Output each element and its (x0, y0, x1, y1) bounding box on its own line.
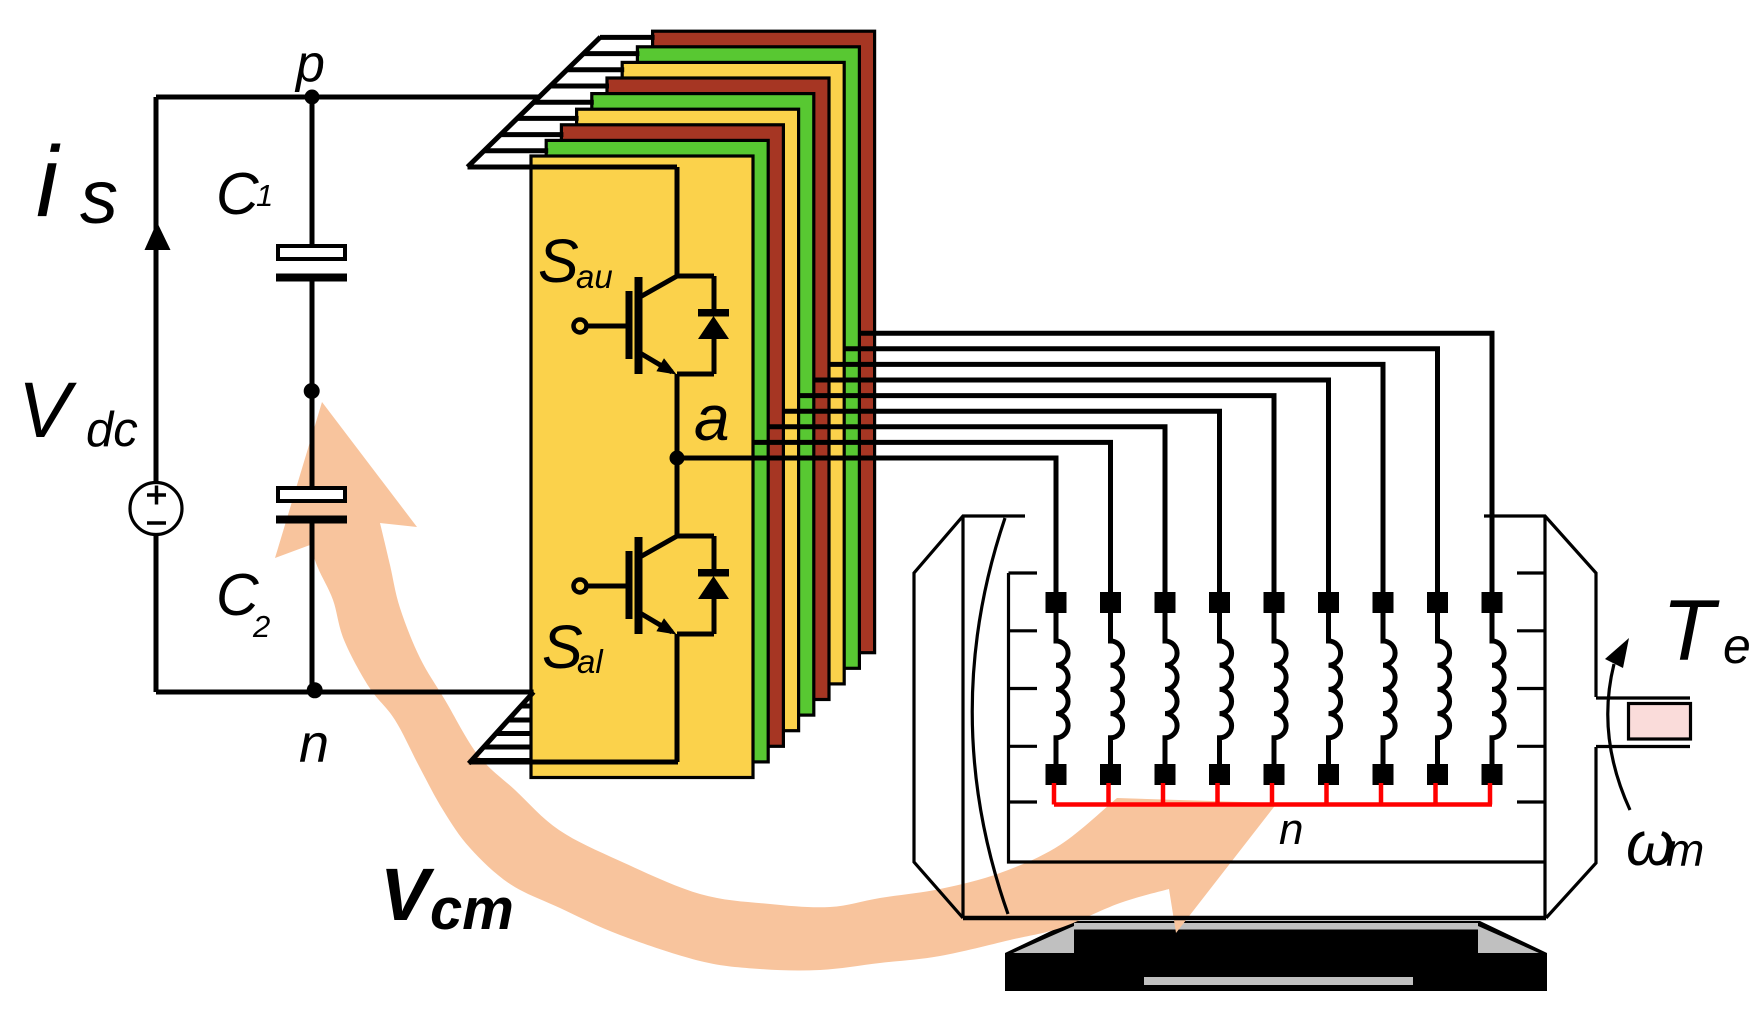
wire C1 to midpoint (310, 281, 315, 488)
neutral bus n (red star connection) (1054, 783, 1492, 805)
winding 4 (1209, 592, 1232, 785)
phase leg panel 4 (577, 109, 799, 731)
phase leg panel 5 (592, 94, 814, 716)
stator frame (1009, 516, 1546, 918)
node midpoint (304, 383, 320, 399)
svg-text:cm: cm (430, 877, 514, 942)
node p (305, 90, 320, 105)
svg-text:C: C (216, 161, 259, 227)
wire phase 1 to motor (677, 458, 1056, 593)
wire capacitor branch upper (310, 97, 315, 246)
p bus comb (top) (468, 37, 655, 167)
wire n bus into front panel (469, 760, 678, 765)
capacitor C2 (276, 488, 347, 520)
wire phase 5 to motor (799, 396, 1274, 593)
stator slot ticks (1009, 573, 1546, 802)
winding 7 (1373, 592, 1396, 785)
wire source to n rail (154, 535, 159, 693)
torque arrow Te (1605, 638, 1630, 810)
svg-text:m: m (1666, 824, 1704, 876)
svg-text:V: V (18, 365, 77, 454)
wire p bus into front panel (468, 165, 678, 170)
winding 1 (1046, 592, 1069, 785)
n bus comb (bottom) (469, 692, 534, 764)
capacitor C1 (276, 246, 347, 278)
svg-text:n: n (299, 714, 329, 774)
Vcm arrow (common-mode voltage path) (275, 402, 1277, 971)
phase leg panel 1 (531, 156, 753, 778)
winding 2 (1100, 592, 1123, 785)
svg-text:a: a (694, 382, 730, 454)
wire C2 to n rail (310, 523, 315, 692)
wire phase 2 to motor (753, 442, 1111, 593)
svg-text:au: au (576, 258, 613, 295)
is current arrow (145, 222, 171, 250)
svg-text:al: al (577, 643, 604, 680)
winding 5 (1264, 592, 1287, 785)
wire phase 3 to motor (768, 427, 1165, 593)
motor shaft (1596, 698, 1691, 747)
wire n rail (156, 690, 534, 695)
phase leg panel 6 (607, 78, 829, 700)
svg-text:p: p (294, 35, 325, 93)
svg-text:s: s (80, 155, 118, 240)
svg-text:1: 1 (256, 178, 273, 213)
IGBT Sau (upper switch) with freewheeling diode (574, 276, 730, 375)
motor base pedestal (1005, 921, 1547, 991)
svg-text:n: n (1279, 805, 1303, 854)
phase-leg rail (collector feed) (675, 167, 680, 277)
phase leg panel 3 (561, 125, 783, 747)
svg-text:T: T (1662, 583, 1720, 679)
motor housing left end cap (914, 516, 1025, 918)
phase output wires (677, 333, 1492, 593)
phase leg panel 2 (546, 140, 768, 762)
wire phase 7 to motor (829, 364, 1383, 593)
winding 3 (1155, 592, 1178, 785)
phase leg panel 7 (622, 62, 844, 684)
wire phase 6 to motor (814, 380, 1329, 593)
phase leg panel 9 (653, 31, 875, 653)
svg-text:S: S (538, 227, 579, 295)
phase leg panel 8 (637, 47, 859, 669)
wire p rail (156, 95, 540, 100)
winding 8 (1427, 592, 1450, 785)
wire source branch (154, 97, 159, 484)
wire phase 8 to motor (844, 349, 1437, 593)
IGBT Sal (lower switch) with freewheeling diode (574, 536, 730, 635)
motor housing body (963, 516, 1596, 918)
node n (307, 682, 323, 698)
svg-text:i: i (36, 126, 61, 238)
winding 9 (1482, 592, 1505, 785)
svg-text:V: V (380, 853, 435, 936)
svg-text:e: e (1723, 618, 1751, 674)
wire phase 9 to motor (859, 333, 1492, 593)
svg-text:2: 2 (252, 609, 270, 644)
wire phase 4 to motor (783, 411, 1219, 593)
wire rail to n bus (675, 634, 680, 762)
winding 6 (1318, 592, 1341, 785)
dc source Vdc (130, 483, 182, 535)
node a (670, 451, 685, 466)
svg-text:dc: dc (86, 403, 138, 457)
wire rail between switches (675, 374, 680, 537)
